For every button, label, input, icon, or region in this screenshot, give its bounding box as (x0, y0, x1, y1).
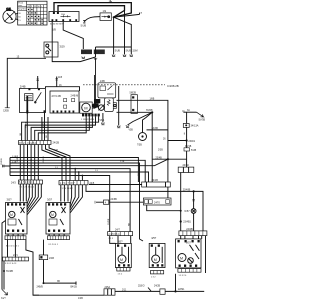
svg-text:2/4B: 2/4B (49, 257, 54, 260)
svg-text:2470: 2470 (154, 200, 160, 204)
connector ticks on y62 link (94, 58, 97, 60)
wires strip to lock3 (180, 236, 182, 239)
svg-text:C/208.2B: C/208.2B (167, 84, 179, 88)
wires motor to splice (92, 106, 95, 109)
strip 24/5 (59, 181, 88, 185)
svg-text:31/SB: 31/SB (43, 122, 45, 128)
bus lines fan below ECU (22, 116, 99, 140)
svg-text:23/4B: 23/4B (156, 156, 163, 159)
svg-text:1 3 5 4 7 6 8 7: 1 3 5 4 7 6 8 7 (60, 188, 74, 190)
wire 15 left (7, 58, 46, 107)
ECU 27/4 (50, 91, 79, 113)
motor M2 (139, 133, 147, 141)
svg-text:SV/RB: SV/RB (43, 156, 45, 163)
wire from fusebox to 3/29 (51, 22, 53, 43)
svg-text:2/4B: 2/4B (20, 84, 26, 88)
svg-text:34/13A: 34/13A (191, 125, 199, 128)
wire labels on bus (12, 156, 125, 172)
svg-text:SV8/B: SV8/B (146, 110, 153, 112)
motor with arrow (98, 104, 104, 110)
svg-text:SV/RB: SV/RB (1, 158, 3, 165)
single connector 24/6B (104, 200, 109, 205)
svg-text:5/B2B: 5/B2B (130, 92, 137, 95)
junction 23/4B1 (180, 220, 182, 222)
svg-text:2 1 5: 2 1 5 (109, 238, 114, 240)
tick 15 (110, 1, 112, 3)
wire V5B branch (118, 86, 120, 126)
strip 24/3 numbers under (20, 187, 74, 191)
svg-text:24/2B: 24/2B (53, 142, 60, 145)
svg-text:15/M: 15/M (132, 51, 137, 53)
wire relay pin1 to strip (26, 114, 28, 141)
fuse label box S/UB (81, 50, 92, 55)
wire dot to ground (3, 271, 5, 290)
fuse rail (96, 46, 132, 48)
strip below lock A (5, 236, 26, 240)
diagonal fan to right strips (42, 145, 62, 181)
svg-text:8 5 2 6 4 1: 8 5 2 6 4 1 (49, 244, 59, 246)
strip 24/18 (142, 182, 171, 187)
junction 24/18 dot (43, 282, 45, 284)
svg-text:24/6B: 24/6B (111, 198, 118, 201)
wire x167 down to 2470 (167, 159, 169, 198)
rotated wire label (17, 155, 45, 163)
svg-text:SV/RB: SV/RB (6, 271, 13, 273)
wires strip A to 24/1 (7, 240, 9, 258)
svg-text:2/3B: 2/3B (158, 150, 163, 152)
wire relay to ECU top (46, 87, 80, 91)
connector stub 11/8 (56, 77, 58, 87)
left bus stubs (9, 158, 11, 176)
svg-text:M: M (10, 213, 13, 217)
fan to motor M2 (143, 112, 153, 132)
wire lock3 to rail (175, 274, 177, 292)
wire to fuse 3 (114, 17, 132, 54)
lock unit 3/57 A (6, 203, 28, 235)
junction SV8/B (151, 111, 153, 113)
svg-text:1 3 5 2 6: 1 3 5 2 6 (179, 275, 188, 277)
svg-text:24/2B: 24/2B (154, 286, 160, 288)
svg-text:SV/RB: SV/RB (108, 218, 110, 225)
dashed line C/208 (83, 84, 165, 86)
table header text (18, 2, 43, 11)
main feed wire (thick) (95, 58, 97, 75)
svg-text:24B/B: 24B/B (37, 287, 44, 289)
strip 24/7 (108, 232, 133, 236)
svg-text:M: M (84, 105, 87, 110)
fan to V5B (128, 112, 153, 125)
svg-text:ions: ions (18, 5, 22, 7)
relay coil ground (thick) (26, 96, 28, 114)
wires 24/3 to lock A (19, 184, 21, 202)
wire splice to junction (117, 111, 153, 113)
strip below lock2 (151, 271, 164, 274)
bus line L7 (10, 176, 110, 232)
svg-text:2/11: 2/11 (122, 289, 127, 291)
svg-text:3A: 3A (187, 109, 190, 112)
svg-text:a: a (141, 11, 143, 14)
svg-text:24/7: 24/7 (115, 228, 120, 231)
wire 34/13A down (186, 127, 188, 147)
junction 22/M1 (174, 290, 176, 292)
box 2470 (143, 198, 171, 205)
junction dots on buses (27, 157, 29, 159)
svg-text:V5B: V5B (129, 130, 134, 132)
wire right open (44, 282, 77, 284)
svg-text:5/UB: 5/UB (191, 150, 197, 152)
bus line L1 (10, 158, 138, 183)
svg-text:1 8 5 0 2 6 4 3: 1 8 5 0 2 6 4 3 (4, 263, 18, 265)
lock motor 3/58 no1 (116, 243, 132, 267)
ignition switch 1/1 (3, 10, 18, 23)
wires 24/7 to lock1 (110, 236, 116, 244)
lock pin labels bottom-left (4, 244, 59, 265)
power wire 30 top (54, 3, 131, 18)
relay 2/48 (20, 88, 46, 112)
svg-text:1/3B: 1/3B (100, 80, 105, 83)
svg-text:22/M1: 22/M1 (178, 289, 185, 291)
svg-text:1/9: 1/9 (103, 9, 107, 13)
svg-text:3/5?: 3/5? (151, 236, 157, 240)
bus line L3 (10, 163, 143, 241)
lock actuator cluster (105, 98, 117, 112)
svg-text:1 3 5 4 7 6 8 7: 1 3 5 4 7 6 8 7 (60, 183, 75, 185)
svg-text:1 3 2: 1 3 2 (151, 277, 156, 279)
svg-text:11A: 11A (61, 13, 65, 16)
wire 23/4B node (152, 158, 186, 160)
svg-text:245A: 245A (105, 286, 111, 289)
junction 23/40B (193, 190, 195, 192)
wire junction down (151, 112, 153, 182)
svg-text:B4/1B: B4/1B (71, 287, 78, 289)
connector V64 (101, 113, 104, 125)
bus into 24/18 (89, 184, 142, 186)
wire 2/48 small down (43, 260, 45, 284)
svg-text:8: 8 (184, 134, 186, 136)
lock unit 8/57 right (176, 239, 201, 268)
wire node right down (194, 191, 203, 231)
wire 24/50 down (180, 173, 182, 231)
svg-text:26: 26 (163, 139, 166, 141)
wire 3A/3B (147, 129, 168, 131)
strip 24/2B right (179, 231, 207, 236)
svg-text:1.5B: 1.5B (120, 161, 125, 163)
strip 24/3 (19, 180, 43, 184)
svg-text:23001: 23001 (188, 140, 195, 143)
svg-text:S/UB: S/UB (81, 25, 87, 28)
wire from fusebox pin 86 down (63, 22, 83, 50)
wire y62 link (52, 47, 95, 62)
rotated wire labels mid (20, 121, 140, 226)
svg-text:27/4 2B: 27/4 2B (52, 94, 61, 98)
fuse tail labels (115, 51, 138, 53)
fuse label box 2 (94, 50, 105, 55)
svg-text:GN: GN (20, 132, 22, 136)
svg-text:SV/RB: SV/RB (17, 155, 19, 162)
svg-text:M: M (51, 213, 54, 217)
wire node down to N/57 (193, 191, 195, 208)
connector strip 24/2B (19, 141, 52, 145)
wire S/UB curve to 1/9 (84, 17, 100, 22)
svg-text:M: M (120, 258, 123, 262)
lamp N/57 (191, 209, 196, 231)
splice blob cluster (94, 99, 100, 108)
svg-text:Posit: Posit (18, 2, 23, 5)
strip below lock3 (178, 269, 201, 273)
arrow 3A right (182, 111, 204, 117)
wire 2470 to y210 link (147, 205, 181, 211)
wires 24/5 to lock B (60, 185, 62, 202)
svg-text:23/40B: 23/40B (183, 189, 191, 192)
svg-text:24/2B: 24/2B (186, 228, 193, 231)
connector under S/UB (82, 57, 85, 59)
svg-text:24/50: 24/50 (183, 164, 190, 167)
wire into relay top (37, 76, 39, 88)
svg-text:2 1 5 3 6 4: 2 1 5 3 6 4 (109, 234, 121, 236)
labels under right locks (118, 274, 188, 279)
svg-text:1 3 2: 1 3 2 (118, 274, 123, 276)
wire into 2470 (96, 201, 143, 203)
svg-text:11A: 11A (82, 50, 87, 54)
connector 5/47 (131, 95, 137, 114)
svg-text:3/5?: 3/5? (7, 198, 13, 202)
wire relay pin2 to strip (44, 112, 46, 140)
junction SV/RB (3, 270, 5, 272)
wires strip down fan (19, 145, 21, 181)
svg-text:23/4B1: 23/4B1 (183, 221, 191, 224)
connector C/DB end (5, 107, 10, 109)
receiver box upper (98, 83, 116, 98)
svg-text:8 1 7 2 4 3 6 2 1: 8 1 7 2 4 3 6 2 1 (20, 187, 35, 189)
svg-text:SV/RB: SV/RB (25, 121, 27, 128)
wires lockA to strip (7, 234, 9, 236)
fuse end connectors (112, 55, 133, 57)
svg-text:3A/3B: 3A/3B (152, 127, 159, 130)
splice blob (92, 103, 98, 108)
wire lockB to 2/48 small (43, 240, 45, 255)
wire a (114, 14, 140, 17)
svg-text:1/8B: 1/8B (150, 99, 155, 101)
bus line L2 (10, 160, 145, 182)
connector 1/9 (100, 13, 111, 21)
wire 5UB down to 24/50 (186, 151, 188, 167)
bus feeders to 24/5 (74, 169, 76, 181)
svg-text:3B: 3B (57, 281, 60, 283)
svg-text:21B/O: 21B/O (138, 286, 145, 288)
wire 26 into junction (168, 140, 187, 142)
svg-text:M: M (154, 258, 157, 262)
lock unit 3/57 B (46, 203, 70, 235)
bottom rail right (115, 290, 204, 292)
strip 24/1 (3, 257, 29, 261)
table marks (28, 9, 43, 24)
right edge wire (205, 236, 207, 273)
wire 24/1 down to dot (3, 261, 5, 271)
lock motor 3/58 no2 (149, 243, 165, 267)
svg-text:2/4B M: 2/4B M (71, 94, 79, 97)
component 34/13A (186, 112, 188, 123)
wire y191 to node (86, 185, 194, 191)
svg-text:Key/Trm: Key/Trm (18, 8, 26, 11)
svg-text:SV/5B: SV/5B (199, 120, 206, 122)
svg-text:8 7 2 1 3 9 2 6 0: 8 7 2 1 3 9 2 6 0 (19, 142, 37, 145)
fusebox 11/C (49, 12, 79, 26)
connector 24/5A (104, 289, 115, 295)
junction 23001 (186, 139, 188, 141)
wire to fuse 2 (124, 10, 126, 54)
connector 2/48 small (39, 255, 48, 260)
bus line L4 (10, 159, 168, 166)
motor M central (80, 102, 92, 113)
svg-text:3/29: 3/29 (60, 45, 66, 49)
svg-text:11/8: 11/8 (58, 77, 63, 79)
svg-text:1.5B: 1.5B (12, 156, 17, 158)
wire to fuse 1 (113, 17, 115, 54)
svg-text:8 5 0 2 6 4 3 1: 8 5 0 2 6 4 3 1 (6, 246, 20, 248)
svg-text:7/3B: 7/3B (137, 145, 142, 147)
table pin rows left (18, 13, 21, 22)
svg-text:V6 4: V6 4 (100, 120, 105, 122)
connector 5/UB (184, 148, 190, 151)
svg-text:1.5B: 1.5B (12, 161, 17, 163)
svg-text:S/UB: S/UB (115, 51, 121, 53)
ignition position table (18, 1, 47, 25)
bottom rail left (33, 294, 104, 296)
svg-text:5 1 7 4 3 6 2 1: 5 1 7 4 3 6 2 1 (19, 182, 34, 184)
svg-text:24/5: 24/5 (90, 182, 95, 185)
power wire 15 top (58, 6, 125, 18)
svg-text:N/57: N/57 (185, 210, 191, 213)
strip below lock1 (117, 268, 130, 271)
wires lockB to strip (48, 234, 50, 236)
svg-text:24/1B: 24/1B (152, 179, 159, 182)
svg-text:24/3: 24/3 (11, 181, 16, 184)
connector box on rail (160, 289, 165, 294)
ECU pin row (82, 114, 100, 117)
svg-text:1/1: 1/1 (6, 7, 11, 11)
svg-text:C/DB: C/DB (3, 109, 9, 112)
switch 3/29 (44, 42, 58, 57)
ground wire left edge (2, 221, 6, 290)
wire splice to right top (117, 100, 168, 159)
junction node splice (113, 16, 115, 18)
bus line L5 (10, 169, 130, 232)
wire strip A right down (26, 240, 39, 296)
svg-text:S/UB: S/UB (126, 51, 132, 53)
ground arrow G31 (2, 290, 8, 296)
wire ECU pins down (41, 117, 43, 141)
svg-text:M: M (180, 256, 183, 260)
box 24/50 (178, 167, 194, 172)
strip below lock B (48, 236, 70, 240)
svg-text:8/5?: 8/5? (186, 242, 191, 245)
svg-text:1 1/8 4 11/8 6: 1 1/8 4 11/8 6 (81, 119, 95, 121)
svg-text:31/?: 31/? (1, 297, 6, 300)
bus line L6 (10, 172, 149, 182)
svg-text:3/5?: 3/5? (47, 198, 53, 202)
